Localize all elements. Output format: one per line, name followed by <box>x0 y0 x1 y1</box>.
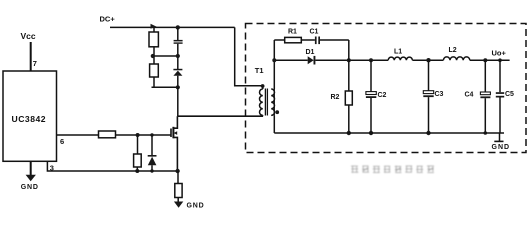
diode gate zener <box>148 155 157 157</box>
svg-text:R1: R1 <box>288 29 297 36</box>
node DC+ cap junction <box>176 25 180 29</box>
wire to gate zener <box>151 135 153 157</box>
transformer T1 primary <box>262 86 264 89</box>
ground under UC3842 <box>30 161 32 175</box>
node primary dot <box>261 84 265 88</box>
svg-text:DC+: DC+ <box>100 15 116 24</box>
svg-text:C1: C1 <box>310 29 319 36</box>
wire DC+ rail <box>110 26 235 28</box>
svg-text:Uo+: Uo+ <box>492 49 507 58</box>
svg-text:UC3842: UC3842 <box>12 114 47 124</box>
svg-text:T1: T1 <box>255 66 264 75</box>
svg-text:L2: L2 <box>449 47 457 54</box>
capacitor snubber <box>177 27 179 40</box>
transformer T1 secondary <box>271 89 274 115</box>
dashed box output section <box>246 24 527 153</box>
op-amp U1 UC3842 box <box>3 71 57 161</box>
ground output <box>499 133 501 141</box>
resistor R2 <box>345 91 352 105</box>
ground source <box>174 202 183 208</box>
wire mid link <box>153 55 179 57</box>
resistor snubber R-a <box>153 27 155 32</box>
inductor L2 <box>443 57 469 60</box>
wire bottom link <box>152 86 178 88</box>
resistor gate series <box>99 131 116 138</box>
capacitor C2 <box>370 60 372 91</box>
wire branch down to R2 <box>348 40 350 91</box>
resistor gate pulldown <box>134 154 142 167</box>
caption blurred text <box>351 166 434 173</box>
svg-text:Vcc: Vcc <box>21 31 36 41</box>
svg-text:C2: C2 <box>378 92 387 99</box>
arrow mark on rail <box>151 24 158 29</box>
capacitor C4 <box>484 60 486 92</box>
pin 6 label <box>60 137 64 146</box>
transformer T1 label <box>255 66 264 75</box>
svg-text:GND: GND <box>187 203 205 210</box>
node Uo+ label <box>492 49 507 58</box>
capacitor C5 <box>499 60 501 92</box>
wire resistor to gate <box>116 134 172 136</box>
svg-text:R2: R2 <box>331 94 340 101</box>
wire drain to transformer <box>177 115 263 117</box>
wire secondary rail <box>274 59 307 61</box>
inductor L1 <box>388 57 412 60</box>
wire secondary top lead <box>273 40 275 89</box>
wire top RC branch <box>274 39 284 41</box>
svg-text:L1: L1 <box>394 49 402 56</box>
transformer core <box>264 89 266 116</box>
svg-text:GND: GND <box>492 144 511 151</box>
svg-text:GND: GND <box>21 184 39 191</box>
node secondary dot <box>275 110 279 114</box>
wire DC+ down to transformer <box>235 27 263 85</box>
pin 7 label <box>33 59 37 68</box>
node DC+ label <box>100 15 116 24</box>
diode D1 <box>308 56 314 64</box>
transistor Q1 MOSFET <box>170 129 172 138</box>
svg-text:C5: C5 <box>505 91 514 98</box>
wire pin6 to gate resistor <box>57 134 99 136</box>
svg-text:C3: C3 <box>435 91 444 98</box>
diode snubber clamp <box>173 69 182 71</box>
capacitor C1 <box>315 37 317 45</box>
svg-text:7: 7 <box>33 59 37 68</box>
node Vcc label <box>21 31 36 41</box>
wire snubber to drain node <box>177 87 179 116</box>
svg-text:D1: D1 <box>306 49 315 56</box>
resistor R1 <box>285 37 302 42</box>
svg-text:6: 6 <box>60 137 64 146</box>
resistor source <box>177 171 179 184</box>
capacitor C3 <box>428 60 430 90</box>
pin 3 stub <box>47 161 178 171</box>
svg-text:C4: C4 <box>465 92 474 99</box>
node gate junction <box>136 133 140 137</box>
wire to gate pulldown resistor <box>137 135 139 154</box>
resistor snubber R-b <box>150 64 159 77</box>
wire secondary bottom lead <box>273 115 275 133</box>
wire Vcc to pin 7 <box>30 42 32 71</box>
wire bottom rail <box>274 132 504 134</box>
svg-text:3: 3 <box>50 164 54 173</box>
pin 3 label <box>50 164 54 173</box>
